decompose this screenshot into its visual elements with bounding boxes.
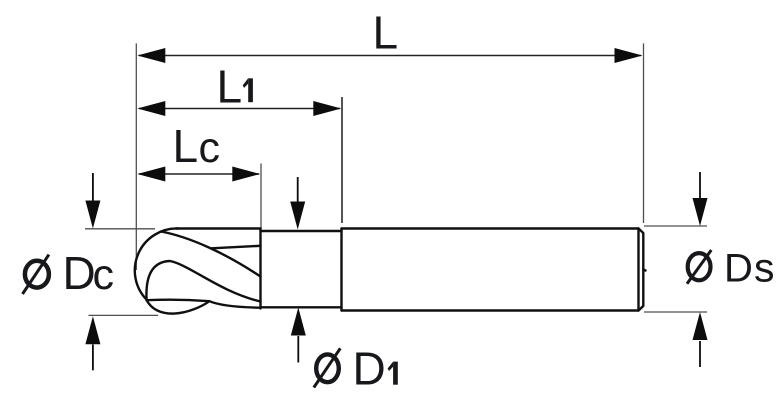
svg-text:D: D [353,343,386,395]
svg-text:L: L [373,7,399,59]
svg-text:L: L [217,61,243,113]
svg-text:c: c [199,124,221,172]
svg-text:c: c [93,251,115,299]
svg-text:L: L [173,120,199,172]
svg-text:D: D [63,247,96,299]
svg-text:D: D [724,247,753,291]
svg-text:s: s [754,245,775,291]
